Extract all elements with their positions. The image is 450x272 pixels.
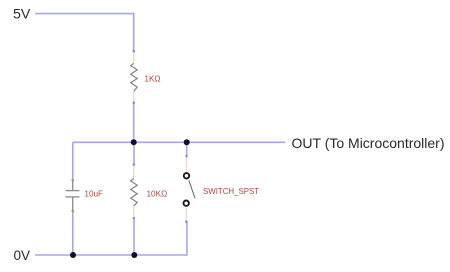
svg-text:1KΩ: 1KΩ xyxy=(144,74,160,83)
svg-text:5V: 5V xyxy=(13,7,31,23)
svg-text:10uF: 10uF xyxy=(84,190,103,199)
svg-text:10KΩ: 10KΩ xyxy=(147,190,168,199)
svg-text:OUT (To Microcontroller): OUT (To Microcontroller) xyxy=(292,135,445,151)
svg-text:SWITCH_SPST: SWITCH_SPST xyxy=(203,187,259,196)
svg-text:0V: 0V xyxy=(14,248,31,263)
